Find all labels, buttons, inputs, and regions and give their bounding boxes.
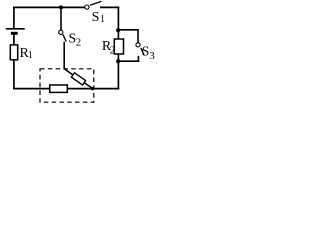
- wire S2 branch top: [60, 7, 62, 30]
- node junction on top wire: [59, 5, 63, 9]
- wire S2 branch bottom: [63, 42, 65, 70]
- node parallel bottom junction: [116, 59, 120, 63]
- resistor R1: [10, 45, 32, 61]
- wire diagonal inside box: [65, 69, 93, 88]
- wire S3 top vertical: [137, 29, 139, 43]
- svg-text:3: 3: [149, 50, 155, 62]
- svg-text:1: 1: [28, 50, 33, 61]
- resistor slanted (inside box): [71, 73, 85, 85]
- svg-text:S: S: [92, 10, 100, 25]
- resistor horizontal (inside box): [50, 85, 68, 92]
- svg-text:1: 1: [100, 14, 105, 25]
- wire left vertical top: [13, 7, 15, 29]
- battery: [6, 29, 25, 46]
- switch S3: [136, 43, 155, 63]
- wire right vertical lower: [117, 54, 119, 89]
- wire left vertical bottom: [13, 60, 15, 90]
- wire parallel bottom horizontal: [118, 60, 139, 62]
- svg-text:2: 2: [76, 38, 81, 49]
- svg-text:2: 2: [110, 44, 116, 56]
- resistor R2: [102, 39, 124, 57]
- node diagonal-to-bottom-wire junction: [91, 87, 94, 90]
- wire parallel top horizontal: [118, 29, 139, 31]
- switch S2: [59, 30, 81, 48]
- dashed box: [40, 69, 94, 102]
- wire top right segment: [100, 6, 119, 8]
- wire top left segment: [13, 6, 85, 8]
- wire S3 bottom stub: [137, 56, 139, 62]
- wire right vertical upper: [117, 7, 119, 40]
- switch S1: [85, 1, 105, 25]
- wire bottom: [13, 88, 119, 90]
- node parallel top junction: [116, 28, 120, 32]
